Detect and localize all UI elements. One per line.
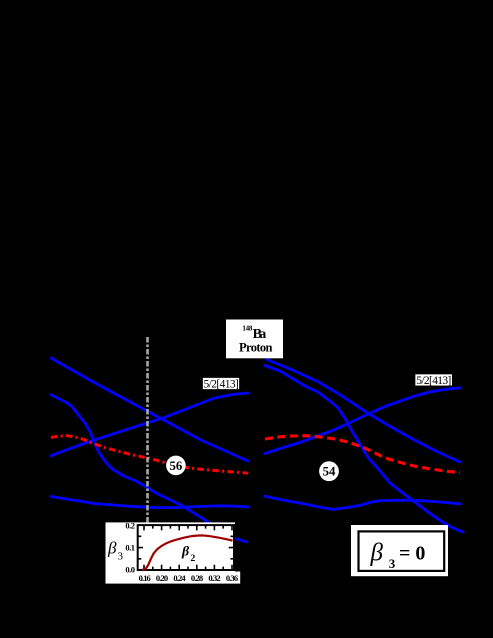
right panel steep level line S2 [267, 360, 460, 463]
svg-text:0.24: 0.24 [173, 573, 186, 583]
svg-text:0.2: 0.2 [125, 521, 135, 531]
svg-text:= 0: = 0 [399, 542, 425, 564]
inset label beta2 [181, 545, 196, 565]
svg-text:5/2[413]: 5/2[413] [416, 375, 451, 387]
svg-text:0.32: 0.32 [208, 573, 220, 583]
left panel vertical gray dash-dot marker line [146, 337, 149, 523]
inset x tick labels [139, 573, 238, 583]
title box 148Ba Proton [226, 320, 283, 359]
right panel rising level line R 5/2[413] [265, 388, 460, 454]
svg-text:54: 54 [323, 465, 336, 479]
left panel red dash-dot Fermi level [51, 436, 248, 474]
svg-text:0.28: 0.28 [191, 573, 203, 583]
label 5/2[413] right [415, 374, 453, 387]
right panel steep level line S1 [265, 366, 463, 533]
inset y tick labels [125, 521, 135, 575]
svg-text:0.0: 0.0 [125, 564, 135, 574]
right panel low flat level line F [265, 496, 460, 509]
svg-text:3: 3 [118, 551, 124, 563]
svg-text:148: 148 [242, 324, 253, 332]
inset axis label beta3 [107, 539, 124, 563]
left panel level line L3 rising 5/2[413] [51, 393, 248, 456]
circle label 54 [319, 461, 339, 481]
inset beta3 curve [142, 535, 233, 569]
svg-text:0.1: 0.1 [125, 543, 135, 553]
svg-text:0.36: 0.36 [226, 573, 238, 583]
inset axis ticks [139, 526, 234, 569]
svg-text:β: β [107, 539, 117, 558]
svg-text:2: 2 [191, 554, 196, 564]
left panel level line L2 (steep descending curve) [51, 395, 247, 542]
svg-text:0.20: 0.20 [156, 573, 168, 583]
svg-text:3: 3 [389, 556, 396, 571]
svg-text:5/2[413]: 5/2[413] [204, 378, 239, 390]
svg-text:Proton: Proton [239, 341, 273, 355]
label 5/2[413] left [202, 377, 239, 390]
left panel level line L1 (descending from top left) [51, 358, 248, 461]
svg-text:0.16: 0.16 [139, 573, 151, 583]
beta3 = 0 framed label [351, 525, 448, 576]
svg-text:β: β [181, 545, 190, 560]
right panel red dashed Fermi level [265, 436, 460, 473]
svg-text:β: β [370, 540, 384, 567]
circle label 56 [166, 456, 186, 476]
inset beta3 vs beta2 plot [106, 522, 241, 583]
svg-text:56: 56 [170, 459, 183, 473]
left panel level line L5 (low flat) [51, 497, 248, 508]
